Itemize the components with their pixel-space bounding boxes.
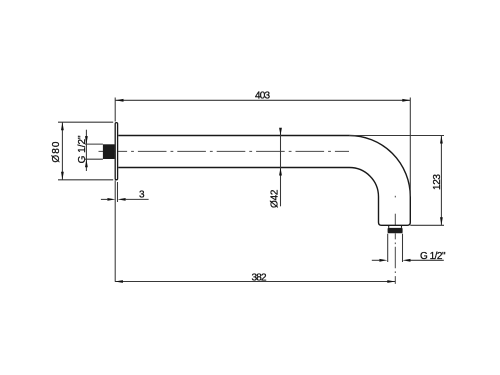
svg-text:123: 123 <box>432 174 443 190</box>
centerline horizontal <box>99 150 350 152</box>
dimension 123 arrow top <box>440 136 443 144</box>
svg-text:G 1/2": G 1/2" <box>420 251 446 262</box>
svg-text:403: 403 <box>255 91 270 102</box>
centerline vertical outlet dash in tube <box>394 214 396 226</box>
dimension 382 arrow right <box>387 280 395 283</box>
dimension 3 leader left <box>101 198 108 200</box>
dimension G 1/2 wall line <box>85 130 87 171</box>
dimension 382 arrow left <box>115 280 123 283</box>
dimension 3 arrow right <box>118 198 126 201</box>
svg-text:Ø80: Ø80 <box>51 141 62 162</box>
dimension 403 line <box>116 99 411 101</box>
svg-text:Ø42: Ø42 <box>270 189 281 208</box>
dimension G 1/2 wall extension lines <box>85 144 103 159</box>
dimension 3 arrow left <box>107 198 115 201</box>
dimension O80 arrow top <box>61 122 64 130</box>
dimension G 1/2 wall arrow bottom <box>85 159 88 167</box>
dimension 123 extension bottom <box>410 224 444 226</box>
dimension O80 extension lines <box>58 122 113 180</box>
flange plate <box>115 123 117 180</box>
outlet neck <box>389 226 402 228</box>
dimension O42 line <box>280 128 282 206</box>
dimension G 1/2 outlet arrow right <box>403 259 411 262</box>
centerline vertical outlet dot <box>394 196 396 198</box>
svg-text:G 1/2": G 1/2" <box>77 135 88 163</box>
dimension 123 line <box>440 136 442 226</box>
dimension O42 arrow bottom <box>279 168 282 176</box>
wall line <box>114 98 116 282</box>
svg-text:3: 3 <box>139 190 145 201</box>
dimension G 1/2 outlet arrow left <box>379 259 387 262</box>
outlet thread ring G 1/2 <box>388 228 403 233</box>
shower arm tube outline <box>118 135 410 225</box>
dimension O42 arrow top <box>279 128 282 136</box>
dimension 3 extension line <box>117 182 119 202</box>
wall thread G 1/2 <box>103 144 115 159</box>
svg-text:382: 382 <box>252 273 267 284</box>
dimension 403 arrow right <box>402 99 410 102</box>
dimension 403 extension line right <box>409 98 411 197</box>
dimension G 1/2 wall arrow top <box>85 136 88 144</box>
dimension O80 line <box>61 122 63 180</box>
dimension G 1/2 outlet leader right <box>411 259 444 261</box>
centerline vertical outlet lower <box>394 233 396 284</box>
dimension G 1/2 outlet leader left <box>372 259 380 261</box>
dimension 3 leader right <box>126 198 149 200</box>
dimension 123 arrow bottom <box>440 217 443 225</box>
dimension 123 extension top <box>349 135 444 137</box>
dimension 382 line <box>115 281 395 283</box>
dimension G 1/2 outlet extension lines <box>388 234 403 262</box>
dimension O80 arrow bottom <box>61 172 64 180</box>
dimension 403 arrow left <box>116 99 124 102</box>
